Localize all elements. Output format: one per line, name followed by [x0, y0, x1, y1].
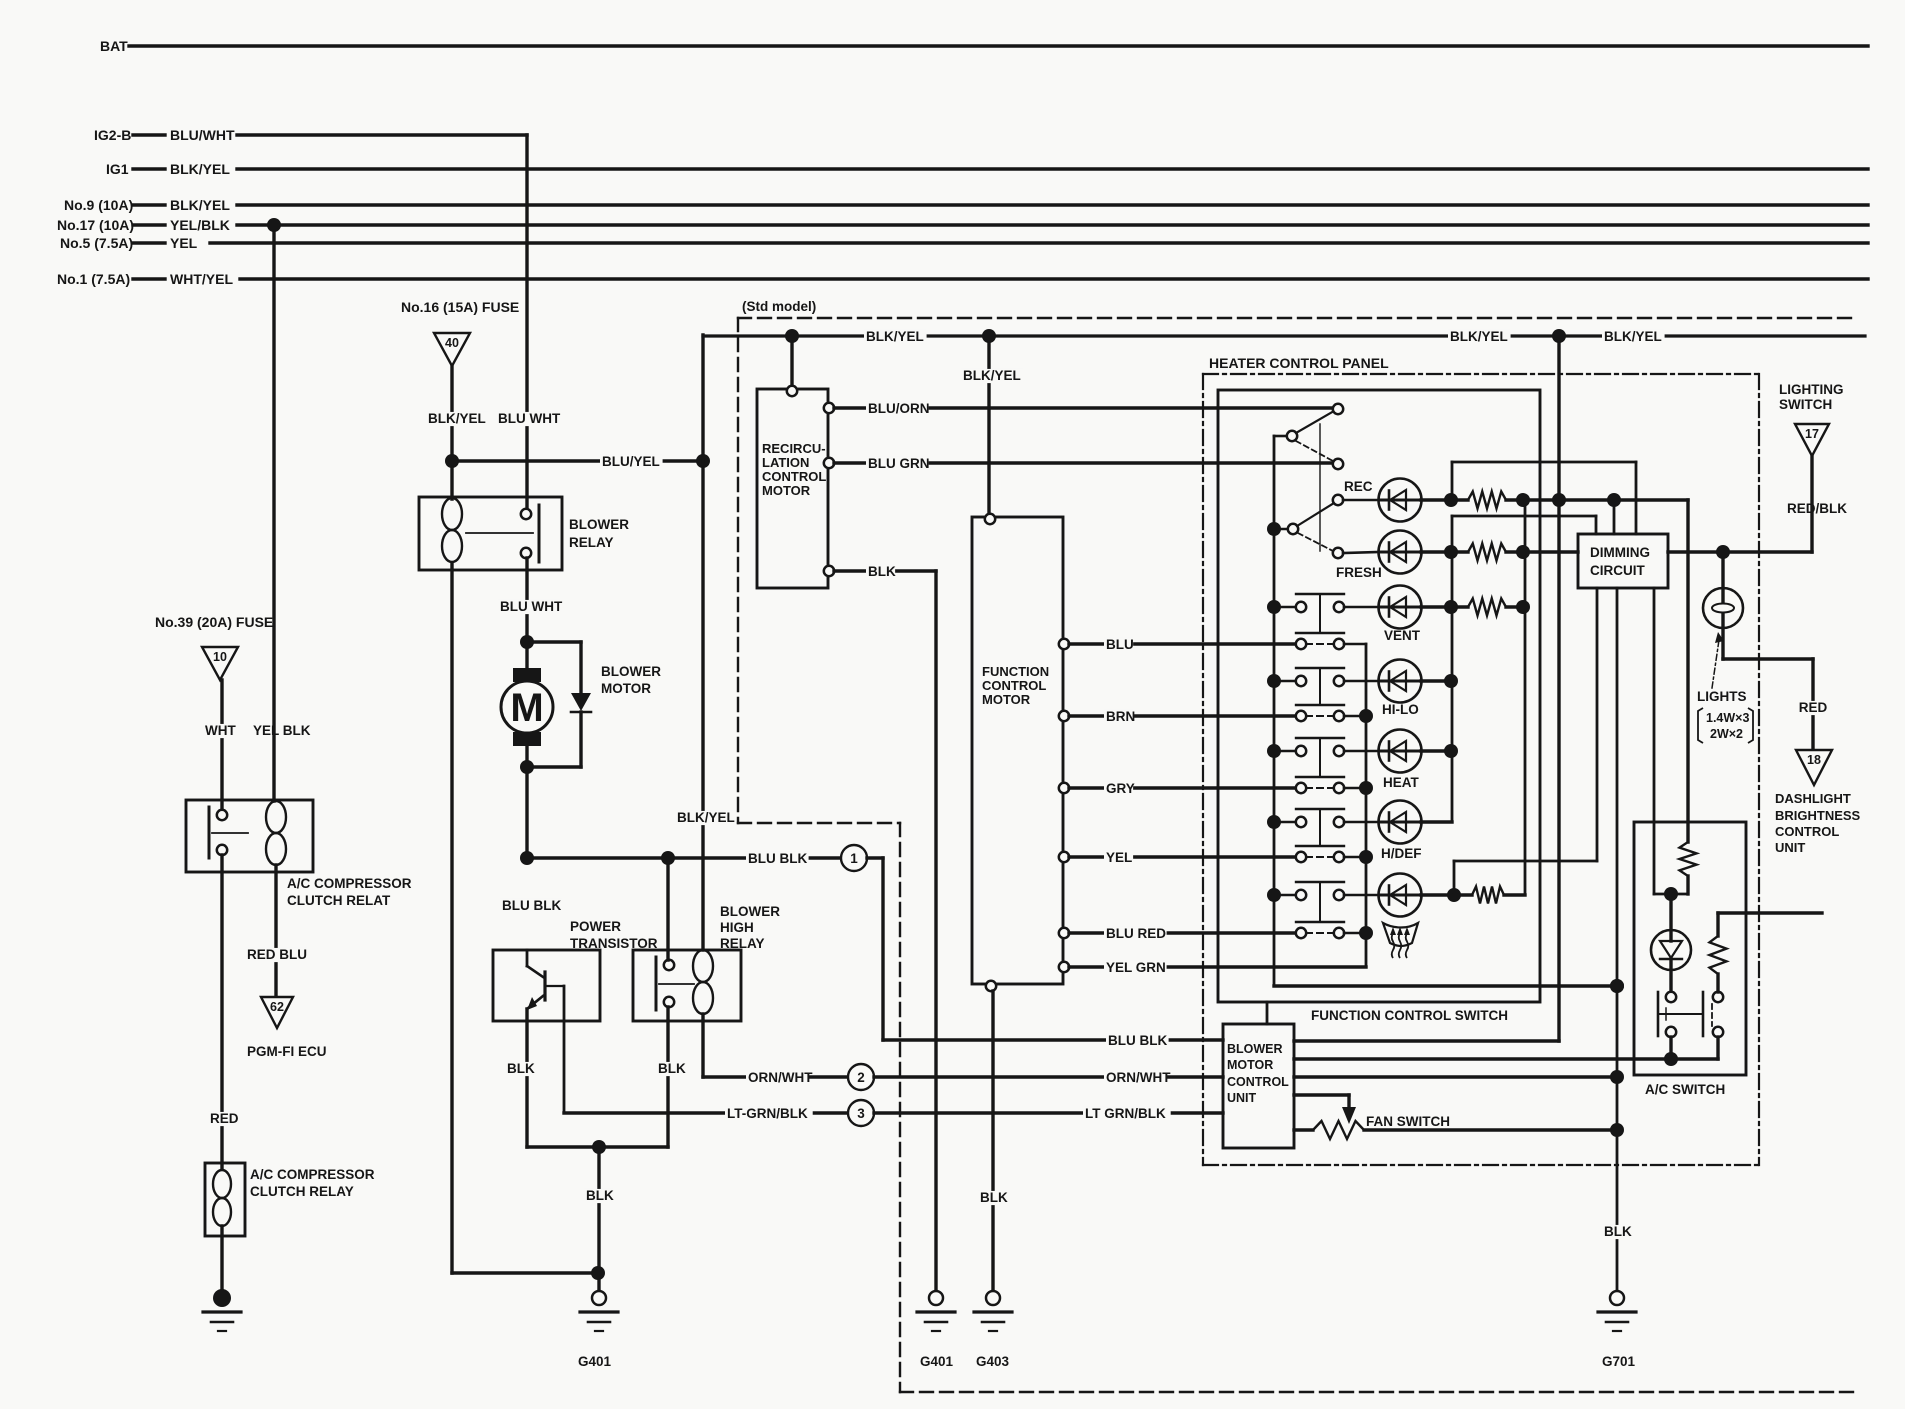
svg-text:MOTOR: MOTOR: [982, 692, 1031, 707]
svg-text:VENT: VENT: [1384, 628, 1421, 643]
svg-text:RED/BLK: RED/BLK: [1787, 501, 1847, 516]
svg-text:WHT/YEL: WHT/YEL: [170, 271, 233, 287]
svg-text:A/C SWITCH: A/C SWITCH: [1645, 1082, 1725, 1097]
svg-text:HEATER CONTROL PANEL: HEATER CONTROL PANEL: [1209, 355, 1389, 371]
svg-text:BLK: BLK: [1604, 1224, 1632, 1239]
svg-text:MOTOR: MOTOR: [762, 483, 811, 498]
svg-text:BLK: BLK: [658, 1061, 686, 1076]
svg-text:BLU WHT: BLU WHT: [500, 599, 563, 614]
svg-text:CONTROL: CONTROL: [1227, 1075, 1289, 1089]
svg-text:FUNCTION CONTROL SWITCH: FUNCTION CONTROL SWITCH: [1311, 1008, 1508, 1023]
svg-text:ORN/WHT: ORN/WHT: [748, 1070, 813, 1085]
svg-text:BRN: BRN: [1106, 709, 1135, 724]
svg-text:BLK/YEL: BLK/YEL: [677, 810, 735, 825]
svg-text:SWITCH: SWITCH: [1779, 397, 1832, 412]
svg-text:MOTOR: MOTOR: [601, 681, 651, 696]
svg-text:G401: G401: [578, 1354, 612, 1369]
svg-text:HEAT: HEAT: [1383, 775, 1420, 790]
svg-text:REC: REC: [1344, 479, 1373, 494]
svg-text:G403: G403: [976, 1354, 1010, 1369]
svg-text:10: 10: [213, 650, 227, 664]
svg-text:LT-GRN/BLK: LT-GRN/BLK: [727, 1106, 808, 1121]
svg-text:18: 18: [1807, 753, 1821, 767]
svg-text:BLOWER: BLOWER: [601, 664, 661, 679]
svg-text:(Std model): (Std model): [742, 299, 816, 314]
svg-text:BLU GRN: BLU GRN: [868, 456, 930, 471]
svg-text:LT GRN/BLK: LT GRN/BLK: [1085, 1106, 1166, 1121]
svg-text:CLUTCH RELAT: CLUTCH RELAT: [287, 893, 391, 908]
svg-text:ORN/WHT: ORN/WHT: [1106, 1070, 1171, 1085]
svg-text:No.17 (10A): No.17 (10A): [57, 217, 134, 233]
svg-text:LIGHTING: LIGHTING: [1779, 382, 1844, 397]
svg-text:MOTOR: MOTOR: [1227, 1058, 1273, 1072]
svg-text:BLU RED: BLU RED: [1106, 926, 1166, 941]
svg-text:No.16 (15A) FUSE: No.16 (15A) FUSE: [401, 299, 519, 315]
svg-text:G401: G401: [920, 1354, 954, 1369]
svg-text:BLK/YEL: BLK/YEL: [1604, 329, 1662, 344]
svg-text:RED: RED: [1799, 700, 1828, 715]
svg-text:BLK: BLK: [586, 1188, 614, 1203]
svg-text:RED: RED: [210, 1111, 239, 1126]
svg-text:No.1 (7.5A): No.1 (7.5A): [57, 271, 130, 287]
svg-text:No.5 (7.5A): No.5 (7.5A): [60, 235, 133, 251]
svg-text:1: 1: [850, 851, 858, 866]
svg-text:DASHLIGHT: DASHLIGHT: [1775, 791, 1851, 806]
svg-text:BLU BLK: BLU BLK: [748, 851, 807, 866]
svg-text:No.9 (10A): No.9 (10A): [64, 197, 133, 213]
svg-text:A/C COMPRESSOR: A/C COMPRESSOR: [287, 876, 412, 891]
svg-text:BLOWER: BLOWER: [569, 517, 629, 532]
svg-text:BLK/YEL: BLK/YEL: [866, 329, 924, 344]
svg-text:CLUTCH RELAY: CLUTCH RELAY: [250, 1184, 354, 1199]
svg-text:17: 17: [1805, 427, 1819, 441]
svg-text:BLK: BLK: [507, 1061, 535, 1076]
svg-text:CONTROL: CONTROL: [982, 678, 1046, 693]
svg-text:BLK/YEL: BLK/YEL: [1450, 329, 1508, 344]
svg-text:BLK/YEL: BLK/YEL: [428, 411, 486, 426]
svg-text:BLU/ORN: BLU/ORN: [868, 401, 930, 416]
svg-text:G701: G701: [1602, 1354, 1636, 1369]
svg-text:CIRCUIT: CIRCUIT: [1590, 563, 1645, 578]
svg-text:LATION: LATION: [762, 455, 809, 470]
svg-text:IG1: IG1: [106, 161, 129, 177]
svg-text:CONTROL: CONTROL: [1775, 824, 1839, 839]
svg-text:BAT: BAT: [100, 38, 128, 54]
svg-text:BLU WHT: BLU WHT: [498, 411, 561, 426]
svg-text:PGM-FI ECU: PGM-FI ECU: [247, 1044, 327, 1059]
svg-text:YEL: YEL: [170, 235, 198, 251]
svg-text:DIMMING: DIMMING: [1590, 545, 1650, 560]
svg-text:A/C COMPRESSOR: A/C COMPRESSOR: [250, 1167, 375, 1182]
svg-text:RELAY: RELAY: [569, 535, 614, 550]
svg-text:BLK: BLK: [980, 1190, 1008, 1205]
svg-text:BLU BLK: BLU BLK: [502, 898, 561, 913]
svg-text:2: 2: [857, 1070, 865, 1085]
svg-text:HIGH: HIGH: [720, 920, 754, 935]
svg-text:BLK/YEL: BLK/YEL: [170, 197, 230, 213]
svg-text:BLOWER: BLOWER: [720, 904, 780, 919]
svg-text:BRIGHTNESS: BRIGHTNESS: [1775, 808, 1861, 823]
svg-text:BLU/WHT: BLU/WHT: [170, 127, 235, 143]
svg-text:CONTROL: CONTROL: [762, 469, 826, 484]
svg-text:1.4W×3: 1.4W×3: [1706, 711, 1749, 725]
svg-text:BLU BLK: BLU BLK: [1108, 1033, 1167, 1048]
svg-text:GRY: GRY: [1106, 781, 1135, 796]
svg-text:YEL/BLK: YEL/BLK: [170, 217, 230, 233]
svg-text:BLU: BLU: [1106, 637, 1134, 652]
svg-text:YEL: YEL: [1106, 850, 1132, 865]
svg-text:40: 40: [445, 336, 459, 350]
svg-text:3: 3: [857, 1106, 865, 1121]
svg-text:YEL GRN: YEL GRN: [1106, 960, 1166, 975]
svg-text:62: 62: [270, 1000, 284, 1014]
svg-text:RECIRCU-: RECIRCU-: [762, 441, 826, 456]
svg-text:WHT: WHT: [205, 723, 236, 738]
svg-text:BLK: BLK: [868, 564, 896, 579]
svg-text:POWER: POWER: [570, 919, 621, 934]
svg-text:RED BLU: RED BLU: [247, 947, 307, 962]
svg-text:UNIT: UNIT: [1775, 840, 1805, 855]
svg-text:BLK/YEL: BLK/YEL: [170, 161, 230, 177]
svg-text:BLU/YEL: BLU/YEL: [602, 454, 660, 469]
svg-text:FUNCTION: FUNCTION: [982, 664, 1049, 679]
svg-text:UNIT: UNIT: [1227, 1091, 1257, 1105]
svg-text:FAN SWITCH: FAN SWITCH: [1366, 1114, 1450, 1129]
svg-text:FRESH: FRESH: [1336, 565, 1382, 580]
svg-text:M: M: [510, 686, 543, 730]
svg-text:BLK/YEL: BLK/YEL: [963, 368, 1021, 383]
svg-text:No.39 (20A) FUSE: No.39 (20A) FUSE: [155, 614, 273, 630]
svg-text:H/DEF: H/DEF: [1381, 846, 1422, 861]
svg-text:YEL BLK: YEL BLK: [253, 723, 311, 738]
svg-text:LIGHTS: LIGHTS: [1697, 689, 1747, 704]
svg-text:BLOWER: BLOWER: [1227, 1042, 1283, 1056]
svg-text:IG2-B: IG2-B: [94, 127, 131, 143]
svg-text:HI-LO: HI-LO: [1382, 702, 1419, 717]
svg-text:2W×2: 2W×2: [1710, 727, 1743, 741]
